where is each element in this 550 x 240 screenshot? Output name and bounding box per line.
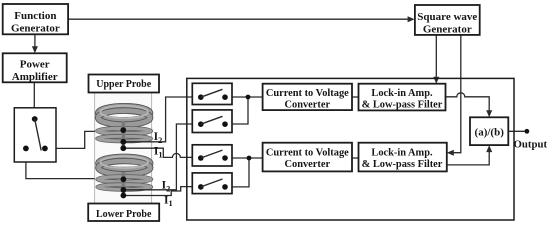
svg-text:Current to Voltage: Current to Voltage — [266, 147, 349, 158]
svg-text:& Low-pass Filter: & Low-pass Filter — [362, 100, 443, 111]
svg-text:Converter: Converter — [285, 159, 331, 170]
svg-text:Lock-in Amp.: Lock-in Amp. — [371, 147, 433, 158]
svg-text:Generator: Generator — [11, 23, 60, 35]
svg-text:Converter: Converter — [285, 100, 331, 111]
svg-text:Upper Probe: Upper Probe — [96, 79, 151, 90]
svg-text:Output: Output — [514, 138, 548, 150]
svg-text:Amplifier: Amplifier — [12, 71, 58, 83]
svg-text:Square wave: Square wave — [417, 11, 477, 23]
svg-text:& Low-pass Filter: & Low-pass Filter — [362, 159, 443, 170]
svg-text:Lock-in Amp.: Lock-in Amp. — [371, 88, 433, 99]
svg-text:Lower Probe: Lower Probe — [96, 209, 152, 220]
svg-text:Function: Function — [14, 10, 56, 22]
svg-text:Generator: Generator — [423, 23, 472, 35]
svg-text:Power: Power — [20, 58, 50, 70]
svg-text:Current to Voltage: Current to Voltage — [266, 88, 349, 99]
svg-text:(a)/(b): (a)/(b) — [475, 127, 505, 139]
